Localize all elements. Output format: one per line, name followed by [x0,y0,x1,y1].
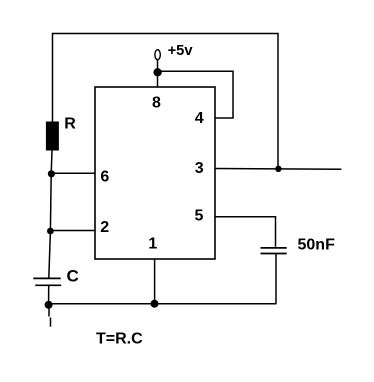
op-amp U1 (555 timer IC outline) [95,87,215,259]
svg-text:1: 1 [148,235,157,252]
svg-text:5: 5 [195,208,204,225]
wire bottom rail [49,303,277,305]
node junction to pin 2 [47,228,54,235]
capacitor C top plate [33,277,60,279]
svg-text:4: 4 [195,110,204,127]
capacitor C bottom plate [35,284,61,286]
wire capacitor C to bottom node [48,285,50,302]
svg-text:2: 2 [100,219,109,236]
resistor R1 body [46,122,59,151]
wire to pin 2 [50,230,96,232]
capacitor C2 50nF bottom plate [261,253,287,255]
svg-text:+5v: +5v [168,43,194,59]
wire capacitor 50nF to bottom rail [275,254,277,304]
node output junction on pin 3 [275,166,281,172]
wire pin 5 to capacitor [215,217,276,247]
svg-text:C: C [67,267,79,286]
wire pin 3 output [215,168,341,171]
node +5v junction [153,68,161,76]
wire open stub below bottom node [48,308,50,317]
svg-text:50nF: 50nF [298,236,336,253]
svg-text:T=R.C: T=R.C [96,331,143,348]
svg-text:R: R [64,116,76,133]
svg-text:3: 3 [195,160,204,177]
wire +5v to pin 4 [158,71,233,118]
capacitor C2 50nF top plate [261,247,287,249]
wire top rail [53,34,279,169]
+5v terminal circle [155,50,160,60]
wire +5v terminal to pin 8 [157,59,159,87]
wire left rail below resistor [49,151,52,279]
wire to pin 6 [51,172,95,174]
svg-text:6: 6 [100,168,109,185]
svg-text:8: 8 [152,95,161,112]
wire pin 1 to bottom rail [154,259,156,304]
node junction to pin 6 [48,170,55,177]
node pin 1 junction [151,300,159,308]
node bottom-left junction [45,301,53,309]
